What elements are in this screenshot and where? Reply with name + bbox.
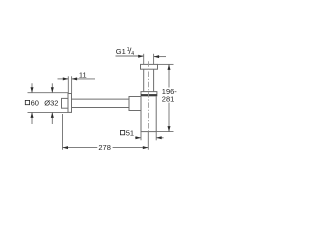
dimension 11 — [58, 76, 96, 93]
dimension 196-281 — [156, 64, 173, 131]
riser tube right line — [153, 69, 155, 91]
dimension square 60 / diameter 32 extension lines — [28, 83, 69, 124]
wall nut — [62, 98, 69, 108]
svg-text:60: 60 — [31, 99, 39, 108]
svg-text:11: 11 — [79, 70, 87, 79]
G thread dimension — [116, 54, 167, 65]
label square 60 — [25, 100, 29, 104]
top nut — [141, 64, 158, 69]
flange (square escutcheon, side view) — [68, 94, 72, 113]
svg-text:G1: G1 — [116, 47, 126, 56]
svg-text:Ø32: Ø32 — [44, 99, 58, 108]
svg-text:278: 278 — [98, 143, 111, 152]
svg-text:51: 51 — [126, 129, 134, 138]
upper nut on riser — [141, 92, 157, 96]
dark band at bottom of upper nut — [141, 94, 157, 96]
trap body — [141, 96, 156, 132]
dimension 278 — [63, 114, 149, 150]
wire horizontal pipe top line — [72, 98, 130, 100]
svg-text:281: 281 — [162, 95, 175, 104]
riser tube left line — [143, 69, 145, 91]
center line (dash-dot) of riser — [148, 61, 150, 133]
connector nut at trap body — [129, 97, 141, 111]
wire horizontal pipe bottom line — [72, 107, 130, 109]
dimension square 51 — [135, 132, 164, 141]
